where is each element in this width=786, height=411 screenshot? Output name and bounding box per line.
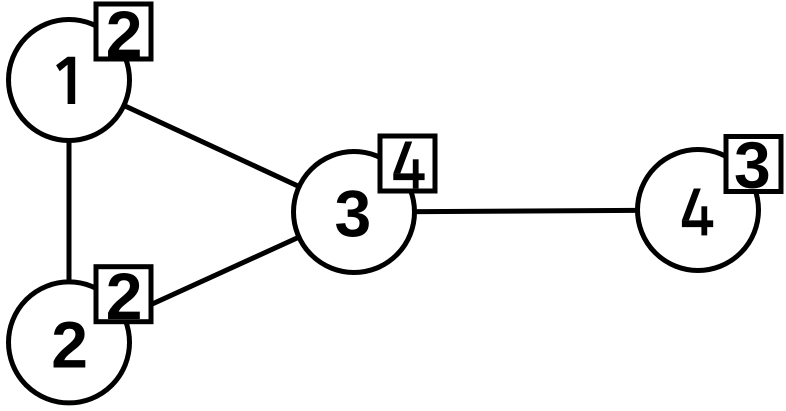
badge value 2 on node 2 [96, 259, 151, 333]
wire edge 2-3 [69, 212, 354, 342]
svg-text:3: 3 [734, 128, 771, 202]
node 1 [9, 20, 130, 141]
svg-text:2: 2 [51, 307, 88, 381]
wire edge 1-2 [67, 80, 72, 342]
node 3 [294, 152, 415, 273]
badge value 4 on node 3 [380, 136, 435, 191]
svg-text:2: 2 [106, 0, 143, 71]
node 2 [9, 282, 130, 403]
node 4 [638, 150, 759, 271]
badge value 2 on node 1 [96, 0, 151, 71]
svg-text:3: 3 [334, 177, 371, 251]
wire edge 1-3 [69, 80, 354, 212]
wire edge 3-4 [354, 210, 698, 212]
badge value 3 on node 4 [726, 128, 781, 202]
svg-text:2: 2 [106, 259, 143, 333]
